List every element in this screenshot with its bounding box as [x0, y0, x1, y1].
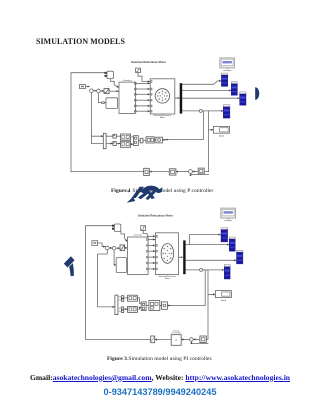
- caption1 logo top swoosh: [140, 186, 163, 194]
- fig1 scope4: [223, 105, 230, 118]
- fig1 converter block: [119, 82, 135, 113]
- fig2 wire sum drop to commutation demux: [98, 250, 115, 307]
- svg-text:Speed: Speed: [219, 136, 224, 138]
- heading SIMULATION MODELS: [36, 37, 125, 46]
- fig2 wire motor output to bus: [178, 256, 182, 258]
- caption1 logo apostrophe mark: [127, 190, 129, 192]
- fig1 wire bus to scope4: [182, 110, 223, 112]
- fig1 scope3: [240, 92, 246, 105]
- fig1 commutation demux bar: [103, 133, 106, 148]
- fig2 wire branch to speed display: [208, 293, 215, 295]
- fig2 scope2: [229, 237, 235, 251]
- fig2 converter block: [128, 237, 149, 274]
- fig2 feedback wire left loop: [86, 226, 112, 340]
- fig1 gain block bottom: [198, 168, 204, 174]
- fig1 step block: [136, 68, 141, 72]
- fig1 wire feedback into bottom sum: [191, 173, 209, 176]
- svg-text:Switched Reluctance Motor: Switched Reluctance Motor: [138, 214, 173, 218]
- fig2 commutation wires: [118, 297, 121, 311]
- fig1 junction node on speed wire: [199, 109, 202, 112]
- fig2 gain block bottom: [200, 336, 206, 343]
- fig1 wire bus to scope2: [182, 89, 231, 91]
- fig2 wire feedback into bottom sum: [191, 342, 208, 344]
- fig2 wire sum2 drop to PI subsystem: [114, 250, 116, 265]
- caption1 logo X stroke falling: [146, 190, 155, 199]
- fig1 wire bus to scope3: [182, 97, 239, 99]
- fig1 wire sum2 drop to subsystem: [98, 93, 105, 103]
- fig2 wire speed drop right: [203, 270, 208, 340]
- fig2 mux block: [114, 224, 120, 231]
- svg-text:Motor: Motor: [165, 277, 170, 280]
- fig2 output bus bar: [183, 240, 185, 274]
- caption figure 3: [107, 356, 212, 362]
- fig2 SRM motor block: [156, 233, 179, 275]
- fig1 commutation logic tiny blocks: [113, 134, 116, 138]
- svg-text:Motor: Motor: [160, 116, 165, 119]
- fig2 wire mux output to converter: [121, 231, 127, 241]
- fig1 wire saturation to converter: [109, 90, 119, 92]
- fig2 scope3: [237, 250, 243, 264]
- fig2 wire sum to sum2: [109, 247, 112, 249]
- svg-text:powergui: powergui: [225, 220, 233, 222]
- fig1 position subsystem block: [106, 98, 118, 109]
- fig2 wire step to motor: [143, 231, 155, 237]
- fig2 wire saturation to converter: [125, 247, 128, 249]
- fig1 mux block: [107, 71, 113, 78]
- fig2 scope4: [224, 265, 230, 279]
- fig2 discrete PI controller block: [171, 335, 181, 346]
- svg-text:Converter: Converter: [123, 79, 132, 82]
- caption1 logo diagonal band A: [132, 187, 145, 198]
- fig2 wire bus to scope2: [186, 244, 229, 246]
- fig2 bottom chain wires: [193, 338, 200, 340]
- fig1 sum junction 1: [90, 89, 94, 93]
- fig1 wire speed drop right: [204, 111, 208, 172]
- fig2 sum junction 2: [112, 246, 116, 250]
- fig1 feedback wire left/bottom loop: [71, 73, 104, 172]
- svg-text:Switched Reluctance Motor: Switched Reluctance Motor: [131, 60, 166, 64]
- fig1 commutation wires: [106, 136, 113, 143]
- fig2 wire commutation row to position tap: [167, 270, 205, 306]
- fig1 wire branch to speed display: [209, 129, 214, 131]
- fig1 converter output port ticks: [135, 83, 137, 112]
- fig1 output bus bar: [180, 83, 183, 113]
- fig1 wires converter to motor (6 phases): [135, 82, 149, 84]
- fig2 saturation block: [120, 245, 125, 251]
- fig1 wire step to motor: [138, 73, 150, 82]
- fig2 sum junction bottom: [190, 338, 194, 342]
- fig1 powergui block: [220, 58, 235, 68]
- fig1 navy half-disc watermark right: [255, 87, 259, 100]
- fig2 constant block: [92, 241, 98, 246]
- fig1 sum junction 2: [97, 89, 101, 93]
- fig1 motor input port ticks: [150, 81, 152, 112]
- fig2 converter output port ticks: [147, 239, 149, 270]
- fig2 junction node on speed wire: [200, 268, 203, 271]
- fig1 wire bus to scope1: [182, 81, 221, 84]
- fig2 powergui block: [221, 208, 236, 218]
- fig1 wire sum2 to saturation: [100, 90, 104, 92]
- fig1 rate block on bottom wire: [144, 168, 150, 175]
- fig2 wire bus to scope4: [186, 269, 224, 271]
- caption1 logo diagonal band B: [138, 190, 150, 199]
- fig2 wire const to sum: [98, 243, 106, 247]
- fig2 scope1: [221, 228, 228, 242]
- fig1 wire motor output to bus: [175, 97, 180, 99]
- fig1 sum junction bottom: [189, 170, 193, 174]
- fig1 saturation block: [104, 89, 109, 94]
- fig2 commutation logic tiny blocks: [121, 296, 123, 298]
- fig2 navy arrow watermark left: [64, 256, 75, 267]
- svg-text:PI Controller: PI Controller: [172, 332, 182, 335]
- svg-text:Speed: Speed: [221, 300, 226, 302]
- footer phone line: [0, 387, 320, 397]
- fig1 scope2: [231, 82, 237, 95]
- svg-text:powergui: powergui: [224, 70, 232, 72]
- fig1 transfer block bottom: [169, 169, 176, 175]
- footer contact line: [0, 373, 320, 382]
- fig1 wire mux output to converter: [111, 79, 119, 88]
- fig1 constant block: [80, 85, 86, 89]
- svg-text:Converter: Converter: [133, 234, 142, 237]
- fig2 sum junction 1: [106, 246, 110, 250]
- fig2 wire sum2 to saturation: [116, 247, 120, 249]
- fig1 speed display block: [213, 126, 229, 133]
- fig1 bottom chain wires: [193, 171, 199, 173]
- caption1 logo X stroke rising: [146, 190, 156, 200]
- fig1 scope1: [221, 73, 227, 86]
- caption figure 1: [111, 188, 213, 194]
- fig2 speed display block: [215, 291, 231, 298]
- fig1 wire const to sum1: [86, 86, 90, 88]
- fig2 motor input port ticks: [156, 236, 158, 270]
- fig1 wire commutation row to position tap: [165, 111, 203, 140]
- fig2 wire bus to scope3: [186, 259, 237, 261]
- fig2 PI subsystem block: [116, 258, 127, 273]
- fig1 wire sum1 drop to commutation demux: [91, 93, 103, 144]
- caption1 logo lower-left triangle: [127, 197, 136, 203]
- fig2 step block: [141, 226, 146, 231]
- fig2 wire branch up to scope1: [190, 235, 221, 245]
- fig1 SRM motor block: [150, 79, 175, 114]
- fig2 commutation demux bar: [115, 295, 118, 315]
- fig2 wires converter to motor (6 phases): [148, 239, 155, 241]
- fig1 wire sum1 to sum2: [93, 90, 96, 92]
- fig2 rate block on bottom wire: [151, 336, 155, 343]
